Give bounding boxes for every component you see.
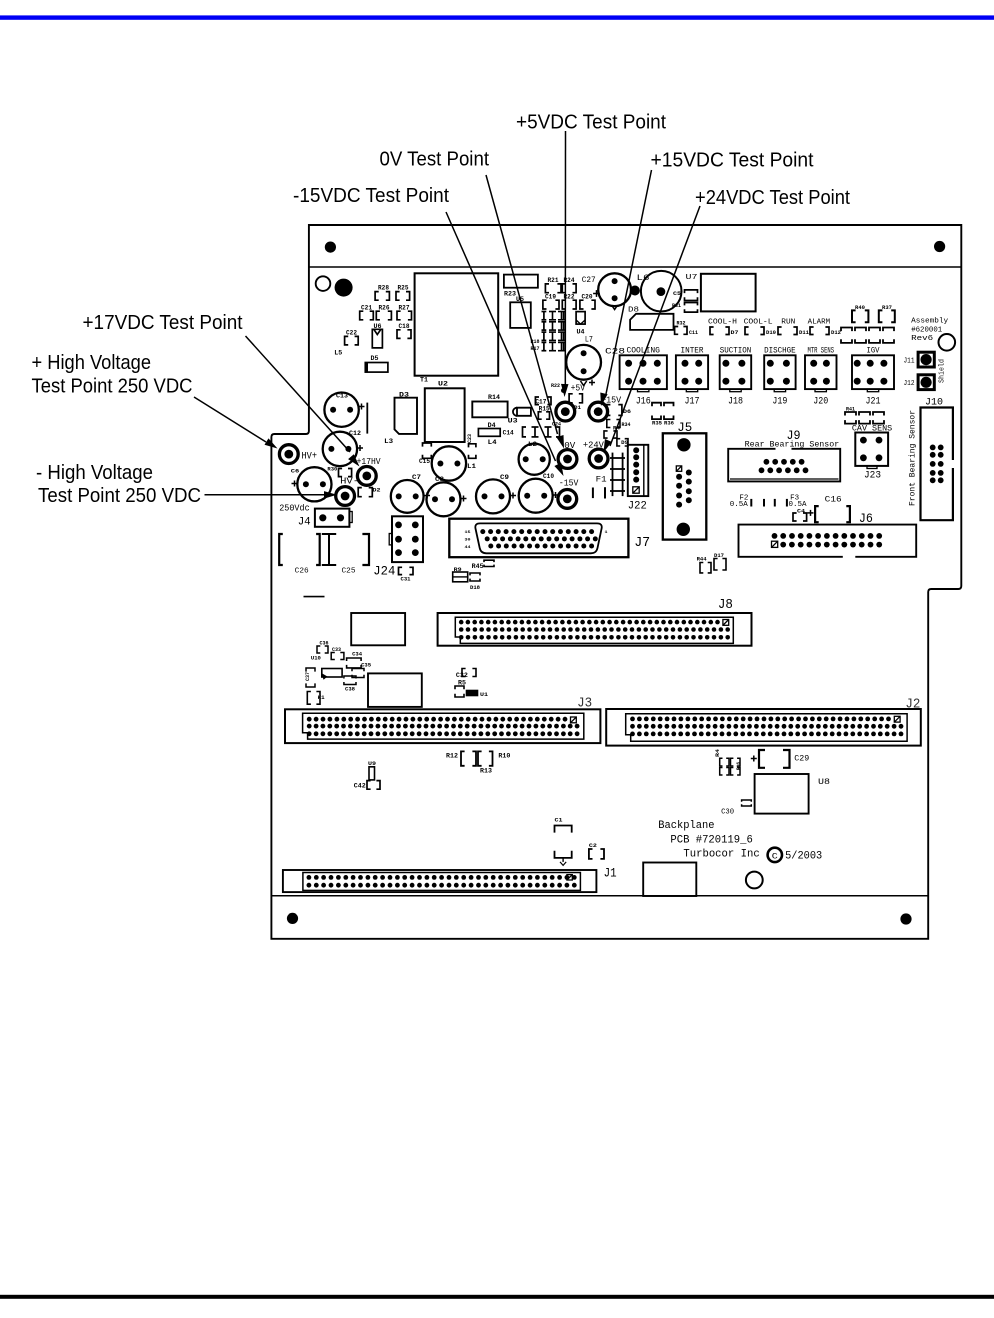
diode D5 — [365, 355, 388, 372]
capacitor C2 — [589, 842, 604, 859]
svg-text:D1: D1 — [574, 405, 581, 411]
svg-text:+24VDC Test Point: +24VDC Test Point — [695, 187, 850, 209]
inductor L6 — [637, 271, 682, 312]
ic U7 — [686, 274, 756, 312]
svg-text:Backplane: Backplane — [658, 820, 714, 832]
inductor L7 — [566, 336, 601, 386]
svg-text:C30: C30 — [721, 809, 734, 817]
text PCB number — [670, 835, 752, 847]
diode D17 — [714, 552, 726, 570]
svg-text:R13: R13 — [480, 768, 492, 775]
svg-text:R10: R10 — [498, 753, 510, 760]
ic U5 — [510, 296, 531, 328]
capacitor C27 — [582, 273, 631, 309]
capacitor C23 — [466, 433, 476, 458]
svg-text:C7: C7 — [412, 474, 421, 481]
svg-text:SUCTION: SUCTION — [720, 346, 752, 355]
svg-text:J23: J23 — [864, 470, 881, 482]
capacitor C32 — [456, 669, 476, 680]
text Turbocor Inc — [683, 849, 759, 861]
svg-text:C: C — [772, 851, 778, 861]
diode D3 — [395, 392, 418, 434]
top blue rule — [0, 15, 994, 19]
svg-text:C34: C34 — [352, 651, 363, 658]
fuse F1 — [593, 476, 607, 499]
mount hole bottom-left — [287, 913, 298, 924]
connector J5 — [663, 420, 707, 540]
fuse F3 — [775, 494, 807, 509]
svg-text:IGV: IGV — [867, 346, 880, 355]
label ALARM — [808, 318, 841, 336]
capacitor C25 — [322, 534, 369, 576]
svg-text:#620001: #620001 — [911, 327, 942, 335]
capacitor C12 — [323, 430, 363, 466]
svg-text:R35: R35 — [652, 420, 663, 427]
svg-text:R22: R22 — [551, 382, 560, 389]
resistor horizontal — [321, 669, 342, 680]
hole — [939, 334, 956, 351]
capacitor C34 — [347, 651, 363, 668]
svg-text:L4: L4 — [488, 439, 497, 446]
connector J1 — [283, 866, 617, 893]
test point HV- — [336, 475, 359, 505]
resistor R23 — [504, 275, 538, 298]
test point +17HV — [357, 456, 381, 485]
leader +15VDC — [600, 170, 651, 406]
capacitor C29 — [751, 750, 810, 768]
svg-text:R18: R18 — [531, 338, 541, 345]
resistor R24 — [562, 277, 576, 293]
test point HV+ — [279, 445, 317, 464]
svg-text:-15VDC Test Point: -15VDC Test Point — [293, 185, 449, 207]
capacitor C18 — [397, 323, 411, 338]
svg-text:J11: J11 — [904, 358, 915, 366]
leader +17VDC — [246, 336, 360, 467]
text Backplane — [658, 820, 714, 832]
svg-text:U4: U4 — [577, 329, 585, 336]
capacitor C7 — [391, 474, 430, 513]
resistor R28 — [375, 284, 389, 300]
svg-text:U10: U10 — [311, 655, 321, 662]
fuse holder ladder — [610, 453, 625, 497]
test point +15V — [589, 395, 622, 422]
svg-text:C38: C38 — [345, 686, 356, 693]
connector J21 IGV — [852, 346, 894, 407]
svg-text:J8: J8 — [718, 597, 733, 613]
capacitor C13 — [324, 393, 364, 427]
svg-text:T1: T1 — [420, 377, 428, 384]
svg-text:U2: U2 — [438, 381, 448, 388]
resistor R4 R16 — [714, 748, 742, 775]
svg-text:C29: C29 — [794, 755, 809, 764]
relay K2 box — [351, 613, 405, 645]
diode D18 — [470, 573, 481, 591]
svg-text:Assembly: Assembly — [911, 318, 949, 326]
svg-text:J7: J7 — [634, 535, 650, 551]
capacitor C36 — [317, 639, 329, 653]
capacitor C8 — [427, 476, 467, 516]
svg-text:COOL-L: COOL-L — [744, 318, 774, 326]
svg-text:R34: R34 — [622, 422, 631, 428]
capacitor C6 — [291, 467, 332, 501]
svg-text:C25: C25 — [342, 568, 357, 576]
hole pair — [316, 276, 331, 291]
svg-text:250Vdc: 250Vdc — [279, 503, 310, 514]
mount hole top-left — [325, 242, 336, 253]
capacitor C14 C24 — [503, 422, 561, 437]
svg-text:R37: R37 — [882, 304, 892, 311]
svg-text:R28: R28 — [378, 284, 389, 291]
resistor R9 — [453, 566, 468, 582]
diode D8 — [628, 307, 674, 330]
svg-text:U7: U7 — [686, 274, 698, 282]
svg-text:Rev6: Rev6 — [911, 335, 934, 343]
ic U10 — [311, 655, 321, 662]
svg-text:C31: C31 — [401, 576, 412, 583]
mount hole bottom-right — [900, 913, 911, 924]
component box — [643, 863, 696, 897]
connector J4 — [298, 509, 352, 529]
svg-text:+17VDC Test Point: +17VDC Test Point — [83, 312, 243, 334]
top strip line — [309, 266, 961, 268]
connector J23 CAV SENS — [852, 424, 893, 481]
svg-text:C19: C19 — [545, 294, 556, 301]
resistor row R41 R42 R43 — [845, 407, 884, 424]
svg-text:R17: R17 — [531, 345, 540, 352]
leader +5VDC — [561, 131, 569, 397]
svg-text:C37: C37 — [304, 672, 311, 681]
resistor R26 — [376, 305, 391, 320]
svg-text:C14: C14 — [503, 430, 514, 437]
svg-text:J1: J1 — [604, 866, 617, 881]
svg-text:- High Voltage: - High Voltage — [36, 462, 153, 484]
resistor R44 — [697, 556, 711, 573]
svg-text:D11: D11 — [799, 329, 810, 336]
connector J16 COOLING — [620, 346, 667, 407]
svg-text:U3: U3 — [508, 418, 518, 425]
svg-text:RUN: RUN — [781, 318, 795, 326]
connector J24 — [373, 516, 423, 578]
resistor R34 — [607, 420, 631, 429]
svg-text:C42: C42 — [354, 783, 366, 790]
svg-text:C11: C11 — [689, 329, 699, 336]
svg-text:J22: J22 — [628, 501, 647, 513]
resistor R31 — [672, 302, 698, 312]
bottom black rule — [0, 1295, 994, 1299]
connector J3 — [285, 696, 600, 744]
svg-text:J17: J17 — [685, 395, 700, 407]
svg-text:J4: J4 — [298, 517, 311, 529]
connector J19 DISCHGE — [764, 346, 796, 407]
svg-text:R14: R14 — [488, 394, 500, 401]
svg-text:5/2003: 5/2003 — [785, 851, 822, 863]
svg-text:C24: C24 — [552, 422, 561, 428]
relay K3 box — [368, 673, 422, 707]
svg-text:30: 30 — [465, 539, 472, 543]
svg-text:L7: L7 — [585, 336, 593, 345]
svg-text:F1: F1 — [596, 476, 607, 485]
svg-text:ALARM: ALARM — [808, 318, 831, 326]
svg-text:Shield: Shield — [939, 359, 947, 383]
svg-text:C8: C8 — [435, 476, 444, 483]
connector J18 SUCTION — [720, 346, 752, 407]
svg-text:C9: C9 — [500, 474, 509, 481]
svg-text:44: 44 — [465, 546, 472, 550]
connector J2 — [606, 697, 921, 746]
svg-text:C27: C27 — [582, 276, 596, 285]
svg-text:D5: D5 — [371, 355, 379, 362]
svg-text:U8: U8 — [818, 778, 830, 787]
relay K1 — [307, 692, 325, 705]
diode D2 — [358, 487, 380, 497]
capacitor C26 — [279, 534, 320, 576]
svg-text:R36: R36 — [664, 420, 674, 427]
svg-text:J21: J21 — [866, 395, 881, 407]
svg-text:0V Test Point: 0V Test Point — [380, 149, 490, 171]
text 5/2003 — [785, 851, 822, 863]
capacitor C42 — [354, 781, 380, 790]
capacitor C15 — [419, 443, 431, 465]
svg-text:J12: J12 — [904, 380, 915, 388]
connector J10 Front Bearing Sensor — [909, 397, 953, 521]
svg-text:+15VDC Test Point: +15VDC Test Point — [651, 150, 814, 172]
svg-text:C10: C10 — [543, 473, 554, 480]
svg-text:Turbocor Inc: Turbocor Inc — [683, 849, 759, 861]
ic U9 — [368, 760, 376, 780]
label COOL-L — [744, 318, 776, 336]
svg-text:L3: L3 — [384, 438, 393, 445]
svg-text:-15V: -15V — [559, 478, 579, 489]
resistor R40 — [852, 304, 868, 322]
text Assembly — [911, 318, 949, 344]
svg-text:D2: D2 — [373, 487, 381, 494]
resistor R5 — [455, 680, 466, 698]
leader 0V — [486, 175, 564, 449]
svg-text:J19: J19 — [772, 395, 787, 407]
svg-text:J16: J16 — [636, 395, 651, 407]
test point 0V — [558, 440, 577, 468]
connector J22 — [628, 445, 649, 513]
svg-text:L1: L1 — [467, 463, 476, 470]
svg-text:15: 15 — [465, 531, 472, 535]
resistor R13 — [478, 751, 493, 774]
inductor L2 — [519, 441, 550, 475]
svg-text:U1: U1 — [480, 691, 489, 698]
svg-text:C5: C5 — [673, 290, 682, 297]
capacitor C5 — [673, 290, 698, 301]
svg-text:+5V: +5V — [571, 383, 586, 394]
svg-text:MTR SENS: MTR SENS — [808, 346, 835, 355]
resistor R33 — [604, 426, 620, 439]
capacitor C22 — [345, 330, 359, 345]
svg-text:C15: C15 — [419, 458, 430, 465]
svg-text:R25: R25 — [398, 284, 409, 291]
svg-text:C23: C23 — [466, 433, 473, 443]
resistor row R46 R39 R42 R43 — [841, 328, 894, 343]
resistor stack R19 R20 R18 R17 — [531, 312, 566, 353]
svg-text:Front Bearing Sensor: Front Bearing Sensor — [909, 410, 918, 506]
hole bottom — [746, 872, 763, 889]
connector J17 INTER — [676, 346, 708, 407]
svg-text:R41: R41 — [846, 407, 855, 413]
capacitor C19 — [543, 294, 559, 309]
resistor R10 — [498, 753, 510, 760]
svg-text:+ High Voltage: + High Voltage — [32, 352, 152, 374]
diode D1 — [569, 394, 582, 411]
svg-text:L5: L5 — [334, 349, 342, 356]
capacitor C30 — [721, 800, 751, 817]
leader -HV — [205, 491, 338, 499]
resistor R30 — [327, 466, 351, 477]
capacitor C10 — [519, 473, 559, 513]
capacitor C33 — [331, 646, 344, 660]
resistor R22a — [562, 294, 576, 309]
svg-text:C6: C6 — [291, 468, 300, 475]
leader +24VDC — [604, 206, 701, 453]
tick mark — [304, 596, 325, 598]
mount hole top-right — [934, 241, 945, 252]
text 250Vdc — [279, 503, 310, 514]
svg-text:D6: D6 — [623, 408, 631, 415]
svg-text:U5: U5 — [516, 296, 524, 303]
svg-text:R32: R32 — [677, 320, 686, 327]
ic U2 — [425, 381, 465, 443]
svg-text:HV+: HV+ — [302, 452, 318, 463]
svg-text:C26: C26 — [295, 568, 310, 576]
svg-text:R4: R4 — [714, 748, 721, 757]
resistor R25 — [396, 284, 410, 300]
resistor R12 — [446, 751, 476, 765]
capacitor C37 — [304, 668, 315, 687]
svg-text:COOL-H: COOL-H — [708, 318, 737, 326]
connector J11 — [904, 352, 935, 367]
capacitor C1 — [555, 817, 572, 866]
svg-text:R44: R44 — [697, 556, 708, 563]
connector J7 — [449, 519, 650, 558]
svg-text:R21: R21 — [548, 277, 559, 284]
svg-text:J2: J2 — [905, 697, 920, 713]
svg-text:D18: D18 — [470, 584, 481, 591]
resistor R27 — [397, 305, 412, 320]
copyright symbol — [768, 848, 782, 862]
capacitor C35 — [352, 662, 372, 678]
test point +24V — [583, 440, 608, 468]
svg-text:R4: R4 — [613, 426, 620, 432]
ic U6 — [372, 323, 382, 348]
capacitor C9 — [476, 474, 516, 513]
svg-text:R40: R40 — [855, 304, 865, 311]
connector J9 Rear Bearing Sensor — [728, 428, 840, 481]
svg-text:D10: D10 — [766, 329, 776, 336]
svg-text:HV-: HV- — [340, 475, 359, 486]
svg-text:J24: J24 — [373, 564, 395, 579]
resistor R14 — [472, 394, 507, 417]
leader -15VDC — [446, 212, 564, 476]
inductor L3 line — [367, 403, 393, 445]
diode D6 — [607, 405, 631, 416]
capacitor C38 — [344, 676, 356, 693]
svg-text:C2: C2 — [589, 842, 597, 849]
diode D9 — [617, 439, 628, 446]
svg-text:U9: U9 — [368, 760, 376, 767]
capacitor C21 — [360, 305, 374, 320]
capacitor C16 — [808, 495, 850, 522]
svg-text:R23: R23 — [504, 291, 516, 298]
label COOL-H — [708, 318, 739, 336]
svg-text:D12: D12 — [831, 329, 841, 336]
svg-text:J20: J20 — [813, 395, 828, 407]
diode D4 — [478, 422, 500, 436]
svg-text:K1: K1 — [318, 694, 326, 701]
svg-text:R31: R31 — [672, 302, 682, 309]
label RUN — [778, 318, 810, 336]
svg-text:Test Point 250 VDC: Test Point 250 VDC — [38, 485, 201, 507]
ic U3 — [508, 408, 531, 425]
svg-text:R12: R12 — [446, 753, 458, 760]
svg-text:R45: R45 — [472, 563, 484, 570]
svg-text:C1: C1 — [555, 817, 564, 824]
svg-text:INTER: INTER — [681, 346, 704, 355]
pad dot — [630, 286, 640, 296]
svg-text:0.5A: 0.5A — [730, 501, 748, 509]
resistor R15 — [538, 406, 550, 420]
inductor L1 — [432, 446, 476, 480]
svg-text:DISCHGE: DISCHGE — [764, 346, 796, 355]
test point +5V — [551, 382, 585, 421]
test point -15V — [558, 478, 579, 509]
board outline — [271, 225, 961, 939]
svg-text:COOLING: COOLING — [626, 346, 660, 355]
svg-text:PCB #720119_6: PCB #720119_6 — [670, 835, 752, 847]
connector J6 — [739, 511, 917, 557]
svg-text:C16: C16 — [825, 495, 842, 504]
bottom strip line — [271, 895, 928, 897]
connector J8 — [438, 597, 752, 646]
transformer T1 — [415, 273, 499, 383]
capacitor C20 — [580, 294, 595, 309]
svg-text:+5VDC Test Point: +5VDC Test Point — [516, 112, 666, 134]
svg-text:D7: D7 — [731, 329, 739, 336]
capacitor C17 — [535, 397, 551, 406]
connector J12 — [904, 375, 935, 390]
resistor R37 — [879, 304, 895, 322]
svg-text:J18: J18 — [728, 395, 743, 407]
resistor R32 C11 — [675, 320, 699, 337]
capacitor C31 — [399, 567, 414, 582]
leader +HV — [194, 397, 278, 449]
svg-text:R30: R30 — [327, 466, 337, 473]
svg-text:Test Point 250 VDC: Test Point 250 VDC — [32, 376, 193, 398]
svg-text:C35: C35 — [361, 662, 372, 669]
resistor R35 R36 — [652, 403, 674, 427]
ic U1 — [467, 691, 489, 699]
resistor R45 — [472, 560, 494, 570]
resistor R21 — [545, 277, 561, 293]
capacitor C4 — [793, 507, 807, 521]
fuse F2 — [730, 494, 764, 509]
connector J20 MTR SENS — [805, 346, 837, 407]
ic U8 — [755, 774, 831, 814]
ic U4 — [576, 312, 585, 336]
